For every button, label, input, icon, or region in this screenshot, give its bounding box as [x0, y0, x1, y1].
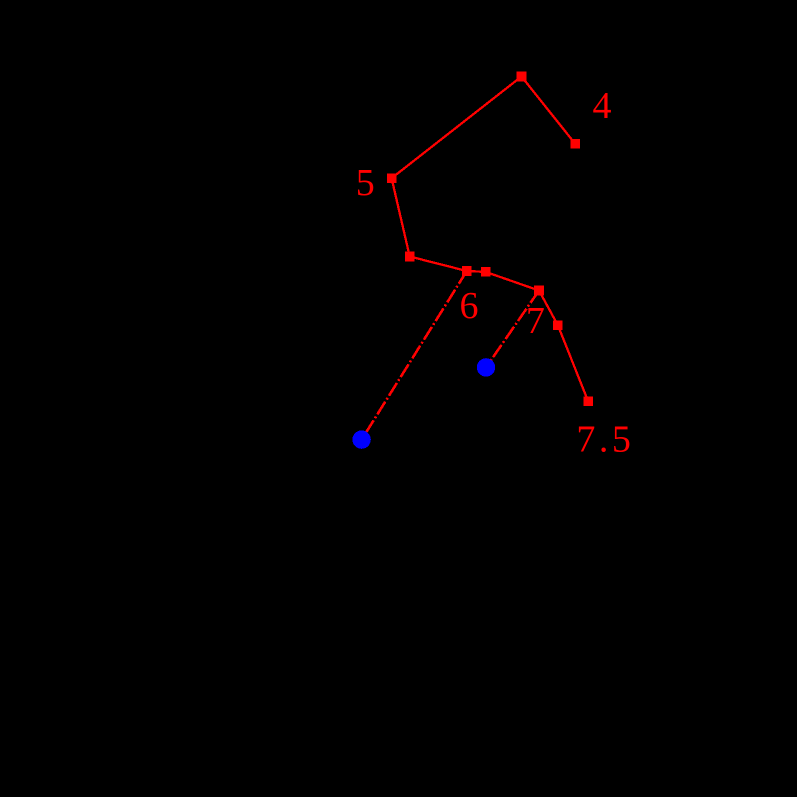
- svg-text:4: 4: [593, 85, 612, 127]
- svg-text:6: 6: [460, 285, 479, 327]
- svg-text:5: 5: [356, 162, 375, 204]
- svg-text:7: 7: [526, 300, 545, 342]
- svg-text:7.5: 7.5: [576, 419, 634, 461]
